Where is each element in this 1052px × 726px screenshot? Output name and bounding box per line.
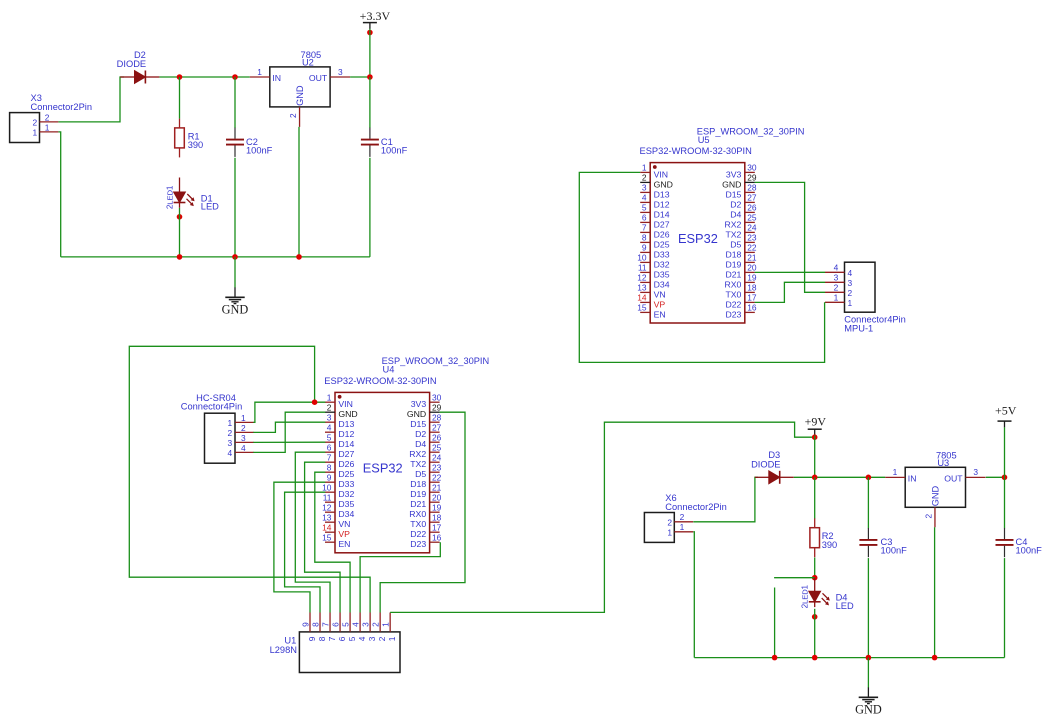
svg-text:5: 5 <box>642 203 647 213</box>
svg-text:5: 5 <box>340 622 350 627</box>
svg-text:3V3: 3V3 <box>726 169 742 179</box>
svg-text:DIODE: DIODE <box>117 59 146 69</box>
capacitor C1 <box>361 128 408 157</box>
svg-text:1: 1 <box>45 122 50 132</box>
svg-text:2: 2 <box>45 112 50 122</box>
U4 pin 7 D26 <box>325 452 355 469</box>
X3 pin 2 <box>40 121 59 123</box>
U5 pin 25 RX2 <box>724 213 756 230</box>
svg-text:DIODE: DIODE <box>751 459 780 469</box>
X6 pin 2 <box>674 521 693 523</box>
U4 pin 26 D4 <box>415 432 442 449</box>
diode D3 <box>751 450 794 484</box>
U4 pin 28 D15 <box>410 412 441 429</box>
U1 pin 4 <box>350 613 367 642</box>
svg-text:22: 22 <box>747 243 757 253</box>
svg-text:14: 14 <box>322 522 332 532</box>
svg-text:100nF: 100nF <box>381 145 408 155</box>
svg-text:24: 24 <box>747 223 757 233</box>
wire U5 D21(20) to MPU-1 pin 4 <box>755 271 825 273</box>
U4 pin 13 VN <box>322 512 350 529</box>
svg-text:3: 3 <box>327 412 332 422</box>
U5 pin 15 EN <box>637 303 665 320</box>
svg-text:2: 2 <box>228 428 233 438</box>
svg-text:8: 8 <box>642 233 647 243</box>
connector HC-SR04 (Connector4Pin) <box>181 393 243 463</box>
capacitor C3 <box>859 528 907 557</box>
svg-text:D22: D22 <box>410 529 426 539</box>
svg-text:1: 1 <box>801 584 810 589</box>
svg-text:10: 10 <box>637 253 647 263</box>
svg-text:4: 4 <box>834 263 839 273</box>
svg-text:D15: D15 <box>410 419 426 429</box>
svg-text:16: 16 <box>747 303 757 313</box>
LED D1 <box>166 178 220 212</box>
junction rail C2/GND <box>232 254 238 260</box>
U1 pin 8 <box>310 613 327 642</box>
junction D4 cathode <box>812 614 818 620</box>
svg-text:GND: GND <box>222 303 249 317</box>
svg-text:18: 18 <box>432 512 442 522</box>
regulator U2 (7805) <box>250 50 350 127</box>
svg-text:1: 1 <box>166 185 175 190</box>
wire U2 GND to rail <box>298 127 300 257</box>
HC-SR04 pin 2 <box>228 423 254 438</box>
connector U1 (L298N) <box>270 632 400 673</box>
U4 pin 14 VP <box>322 522 350 539</box>
svg-text:+9V: +9V <box>805 415 827 429</box>
svg-text:7: 7 <box>327 452 332 462</box>
svg-text:19: 19 <box>747 273 757 283</box>
svg-text:1: 1 <box>848 298 853 308</box>
svg-text:U1: U1 <box>284 636 296 646</box>
svg-text:30: 30 <box>747 163 757 173</box>
svg-text:2: 2 <box>924 513 934 518</box>
svg-text:6: 6 <box>327 442 332 452</box>
svg-text:3: 3 <box>338 67 343 77</box>
svg-text:D33: D33 <box>338 479 354 489</box>
connector X6 (Connector2Pin) <box>644 493 726 543</box>
U5 pin 1 VIN <box>640 163 668 180</box>
wire X6 pin1 down to GND rail <box>693 532 694 658</box>
svg-text:D18: D18 <box>725 249 741 259</box>
svg-text:EN: EN <box>654 309 666 319</box>
svg-text:TX2: TX2 <box>725 229 741 239</box>
svg-text:D12: D12 <box>654 199 670 209</box>
svg-text:D14: D14 <box>338 439 354 449</box>
U4 pin 10 D32 <box>322 482 354 499</box>
wire rail to ground symbol <box>234 257 236 288</box>
wire D1 to GND rail <box>179 208 181 257</box>
MPU-1 pin 4 <box>825 263 853 278</box>
svg-text:15: 15 <box>322 532 332 542</box>
svg-text:TX0: TX0 <box>410 519 426 529</box>
svg-text:D22: D22 <box>725 299 741 309</box>
svg-text:2: 2 <box>370 622 380 627</box>
svg-text:D12: D12 <box>338 429 354 439</box>
svg-text:8: 8 <box>310 622 320 627</box>
svg-text:ESP32: ESP32 <box>678 231 718 246</box>
U1 pin 3 <box>360 613 377 642</box>
U5 pin 4 D12 <box>640 193 670 210</box>
U4 pin 27 D2 <box>415 422 442 439</box>
U5 pin 10 D32 <box>637 253 669 270</box>
svg-text:22: 22 <box>432 472 442 482</box>
wire C1 column <box>369 77 371 128</box>
ESP32 module U5 (ESP_WROOM_32_30PIN) <box>640 126 805 323</box>
U2 pin 1 IN <box>250 76 270 78</box>
U4 pin 25 RX2 <box>409 442 441 459</box>
svg-text:VP: VP <box>654 299 666 309</box>
U4 pin 16 D23 <box>410 532 441 549</box>
wire U4 D33(9) to U1 pin9 <box>274 482 325 612</box>
wire U5 VIN loop to MPU-1 pin 1 <box>579 172 824 362</box>
U4 pin 8 D25 <box>325 462 355 479</box>
svg-text:3: 3 <box>834 273 839 283</box>
svg-text:1: 1 <box>380 622 390 627</box>
wire U3 OUT to +5V node <box>986 476 1005 478</box>
svg-text:7: 7 <box>642 223 647 233</box>
svg-text:D19: D19 <box>410 489 426 499</box>
svg-text:27: 27 <box>747 193 757 203</box>
svg-text:L298N: L298N <box>270 645 297 655</box>
svg-text:U4: U4 <box>383 365 395 375</box>
U5 pin 30 3V3 <box>726 163 757 180</box>
wire U4 D27(6) to U1 pin7 <box>295 452 330 612</box>
svg-text:1: 1 <box>327 392 332 402</box>
U1 pin 6 <box>330 613 347 642</box>
U5 pin 27 D2 <box>730 193 757 210</box>
U5 pin 2 GND <box>640 173 673 190</box>
junction U4 VIN <box>312 399 318 405</box>
svg-text:23: 23 <box>747 233 757 243</box>
svg-text:ESP32-WROOM-32-30PIN: ESP32-WROOM-32-30PIN <box>640 146 752 156</box>
svg-text:4: 4 <box>848 268 853 278</box>
U3 pin 3 OUT <box>966 476 986 478</box>
svg-text:LED: LED <box>201 202 219 212</box>
wire C1 to GND rail corner <box>369 158 371 257</box>
svg-text:30: 30 <box>432 392 442 402</box>
regulator U3 (7805) <box>885 450 985 527</box>
svg-text:TX2: TX2 <box>410 459 426 469</box>
svg-text:10: 10 <box>322 482 332 492</box>
U5 pin 6 D27 <box>640 213 670 230</box>
svg-text:ESP_WROOM_32_30PIN: ESP_WROOM_32_30PIN <box>697 126 805 136</box>
junction rail U3 GND <box>932 655 938 661</box>
junction R2/D4 node <box>812 575 818 581</box>
svg-text:U5: U5 <box>698 135 710 145</box>
svg-text:RX2: RX2 <box>724 219 741 229</box>
wire U3 GND to rail <box>934 527 936 657</box>
X3 pin 1 <box>40 131 59 133</box>
U2 pin 3 OUT <box>330 76 350 78</box>
U4 pin 4 D12 <box>325 422 355 439</box>
svg-text:GND: GND <box>931 486 941 507</box>
MPU-1 pin 3 <box>825 273 853 288</box>
junction rail U2 GND <box>296 254 302 260</box>
U4 pin 12 D34 <box>322 502 354 519</box>
svg-text:2: 2 <box>848 288 853 298</box>
svg-text:7: 7 <box>327 636 337 641</box>
junction rail C3/GND <box>866 655 872 661</box>
U5 pin 16 D23 <box>725 303 756 320</box>
svg-text:Connector4Pin: Connector4Pin <box>181 401 243 411</box>
svg-text:12: 12 <box>322 502 332 512</box>
HC-SR04 pin 4 <box>228 443 254 458</box>
svg-text:D19: D19 <box>725 259 741 269</box>
power +3.3V <box>360 9 391 29</box>
ground GND symbol <box>222 287 249 316</box>
svg-text:5: 5 <box>347 636 357 641</box>
junction rail dangling wire <box>772 655 778 661</box>
svg-text:13: 13 <box>322 512 332 522</box>
wire HC-SR04 pin1 to VIN node <box>253 402 325 422</box>
svg-text:D26: D26 <box>338 459 354 469</box>
svg-text:D35: D35 <box>338 499 354 509</box>
svg-text:29: 29 <box>432 402 442 412</box>
svg-text:U2: U2 <box>302 57 314 67</box>
U5 pin 11 D35 <box>638 263 670 280</box>
svg-text:D35: D35 <box>654 269 670 279</box>
wire U1 pin1 to +9V node <box>390 422 815 612</box>
U5 pin 8 D25 <box>640 233 670 250</box>
svg-text:28: 28 <box>747 183 757 193</box>
wire down to R2 <box>814 477 816 518</box>
svg-text:IN: IN <box>908 474 917 484</box>
U4 pin 17 D22 <box>410 522 441 539</box>
svg-text:21: 21 <box>747 253 757 263</box>
svg-text:6: 6 <box>642 213 647 223</box>
wire dangling to GND rail <box>774 588 776 658</box>
ground GND symbol <box>855 687 882 716</box>
svg-text:2: 2 <box>241 423 246 433</box>
junction +9V node <box>812 434 818 440</box>
svg-text:7: 7 <box>320 622 330 627</box>
svg-text:ESP32-WROOM-32-30PIN: ESP32-WROOM-32-30PIN <box>324 376 436 386</box>
svg-text:Connector2Pin: Connector2Pin <box>31 102 93 112</box>
U5 pin 17 D22 <box>725 293 756 310</box>
svg-text:VN: VN <box>338 519 350 529</box>
svg-text:4: 4 <box>228 448 233 458</box>
svg-text:1: 1 <box>33 128 38 138</box>
svg-text:20: 20 <box>747 263 757 273</box>
svg-text:D13: D13 <box>338 419 354 429</box>
svg-text:1: 1 <box>257 67 262 77</box>
junction U2 OUT / +3.3V / C1 <box>367 74 373 80</box>
U4 pin 6 D27 <box>325 442 355 459</box>
U1 pin 1 <box>380 613 397 642</box>
wire C3 column <box>867 477 869 528</box>
svg-text:TX0: TX0 <box>725 289 741 299</box>
svg-text:VIN: VIN <box>654 169 668 179</box>
svg-text:ESP32: ESP32 <box>363 461 403 476</box>
wire U4 D32(10) to U1 pin8 <box>285 492 326 612</box>
U5 pin 23 D5 <box>730 233 757 250</box>
svg-text:390: 390 <box>822 540 838 550</box>
U5 pin 26 D4 <box>730 203 757 220</box>
svg-text:D33: D33 <box>654 249 670 259</box>
wire U4 GND(2) to HC-SR04 pin4 <box>253 412 325 452</box>
svg-text:2: 2 <box>801 603 810 608</box>
svg-text:3: 3 <box>360 622 370 627</box>
MPU-1 pin 2 <box>825 283 853 298</box>
svg-text:6: 6 <box>330 622 340 627</box>
svg-text:390: 390 <box>188 140 204 150</box>
svg-text:9: 9 <box>327 472 332 482</box>
svg-text:1: 1 <box>241 413 246 423</box>
wire X3 pin1 down to GND rail <box>58 132 60 257</box>
U4 pin 23 D5 <box>415 462 442 479</box>
wire 5V loop: U4 VIN / HC-SR04 pin1 / U1 pin3 <box>129 346 370 612</box>
svg-text:4: 4 <box>327 422 332 432</box>
connector MPU-1 (Connector4Pin) <box>844 262 906 333</box>
capacitor C2 <box>226 128 273 157</box>
svg-text:GND: GND <box>855 703 882 717</box>
svg-text:D23: D23 <box>410 539 426 549</box>
U4 pin 20 D21 <box>410 492 441 509</box>
U5 pin 22 D18 <box>725 243 756 260</box>
wire C2 column <box>234 77 236 128</box>
svg-text:ESP_WROOM_32_30PIN: ESP_WROOM_32_30PIN <box>382 356 490 366</box>
svg-text:16: 16 <box>432 532 442 542</box>
wire C3 to GND rail <box>867 558 869 658</box>
U4 pin 2 GND <box>325 402 358 419</box>
wire D3 cathode to U3 IN <box>794 476 885 478</box>
svg-text:RX2: RX2 <box>409 449 426 459</box>
svg-text:20: 20 <box>432 492 442 502</box>
U5 pin 20 D21 <box>725 263 756 280</box>
svg-text:23: 23 <box>432 462 442 472</box>
junction D1 cathode <box>177 214 183 220</box>
svg-text:3: 3 <box>642 183 647 193</box>
svg-text:1: 1 <box>228 418 233 428</box>
U1 pin 9 <box>300 613 317 642</box>
GND rail (bottom-right) <box>694 657 1004 659</box>
svg-text:D13: D13 <box>654 189 670 199</box>
X6 pin 1 <box>674 531 693 533</box>
svg-text:GND: GND <box>338 409 357 419</box>
svg-text:D2: D2 <box>415 429 426 439</box>
resistor R1 <box>175 119 204 158</box>
U5 pin 9 D33 <box>640 243 670 260</box>
svg-text:29: 29 <box>747 173 757 183</box>
wire +3.3V down to OUT node <box>369 29 371 77</box>
LED D4 <box>801 578 854 611</box>
wire R2 bottom to LED node <box>814 558 816 578</box>
U4 pin 18 TX0 <box>410 512 441 529</box>
U5 pin 7 D26 <box>640 223 670 240</box>
svg-text:21: 21 <box>432 482 442 492</box>
svg-text:11: 11 <box>638 263 647 273</box>
svg-text:OUT: OUT <box>944 474 963 484</box>
U4 pin 30 3V3 <box>411 392 442 409</box>
svg-text:D4: D4 <box>415 439 426 449</box>
U3 pin 1 IN <box>885 476 905 478</box>
U5 pin 14 VP <box>637 293 665 310</box>
svg-text:GND: GND <box>654 179 673 189</box>
wire U2 OUT to +3.3V node <box>350 76 370 78</box>
svg-text:D34: D34 <box>338 509 354 519</box>
svg-text:26: 26 <box>432 432 442 442</box>
U4 pin 21 D19 <box>410 482 441 499</box>
svg-text:+5V: +5V <box>995 403 1017 417</box>
wire down to R1 <box>179 77 181 119</box>
wire HC-SR04 pin3 to U4 D14(5) <box>253 441 325 443</box>
HC-SR04 pin 1 <box>228 413 254 428</box>
svg-text:D23: D23 <box>725 309 741 319</box>
svg-text:11: 11 <box>323 492 332 502</box>
svg-text:GND: GND <box>295 85 305 106</box>
svg-text:9: 9 <box>300 622 310 627</box>
svg-text:3V3: 3V3 <box>411 399 427 409</box>
svg-text:D15: D15 <box>725 189 741 199</box>
svg-text:4: 4 <box>642 193 647 203</box>
connector X3 (Connector2Pin) <box>10 93 92 143</box>
svg-text:U3: U3 <box>937 458 949 468</box>
svg-text:D21: D21 <box>410 499 426 509</box>
wire X3 pin2 to D2 anode <box>58 77 124 122</box>
wire X6 pin2 to D3 anode <box>693 477 758 522</box>
svg-text:EN: EN <box>338 539 350 549</box>
wire D4 to GND rail <box>814 609 816 658</box>
wire C2 to GND rail <box>234 158 236 257</box>
svg-text:1: 1 <box>834 293 839 303</box>
svg-text:25: 25 <box>747 213 757 223</box>
U4 pin 22 D18 <box>410 472 441 489</box>
U4 pin 9 D33 <box>325 472 355 489</box>
U5 pin 18 TX0 <box>725 283 756 300</box>
wire U5 D22(17) to MPU-1 pin 3 <box>755 282 825 302</box>
U4 pin 11 D35 <box>323 492 355 509</box>
svg-text:VIN: VIN <box>338 399 352 409</box>
svg-text:D27: D27 <box>338 449 354 459</box>
U1 pin 5 <box>340 613 357 642</box>
svg-text:3: 3 <box>848 278 853 288</box>
wire C4 column <box>1004 477 1006 528</box>
svg-text:+3.3V: +3.3V <box>360 9 391 23</box>
junction below +3.3V <box>367 30 373 36</box>
U1 pin 2 <box>370 613 387 642</box>
svg-text:D5: D5 <box>730 239 741 249</box>
svg-text:15: 15 <box>637 303 647 313</box>
svg-text:1: 1 <box>893 467 898 477</box>
U5 pin 21 D19 <box>725 253 756 270</box>
U1 pin 7 <box>320 613 337 642</box>
svg-text:1: 1 <box>642 163 647 173</box>
wire stub left of R2/D4 node <box>774 577 815 579</box>
svg-text:2: 2 <box>377 636 387 641</box>
diode D2 <box>117 50 160 84</box>
svg-text:28: 28 <box>432 412 442 422</box>
power +9V <box>805 415 827 436</box>
svg-text:8: 8 <box>327 462 332 472</box>
svg-text:D14: D14 <box>654 209 670 219</box>
wire U4 D26(7) to U1 pin6 <box>305 462 340 612</box>
U2 pin 2 GND <box>299 107 301 127</box>
U4 pin 1 VIN <box>325 392 353 409</box>
junction rail D4 <box>812 655 818 661</box>
U4 pin 19 RX0 <box>409 502 441 519</box>
svg-text:2: 2 <box>288 113 298 118</box>
svg-text:D5: D5 <box>415 469 426 479</box>
svg-text:3: 3 <box>367 636 377 641</box>
svg-text:13: 13 <box>637 283 647 293</box>
svg-text:17: 17 <box>747 293 757 303</box>
svg-text:3: 3 <box>228 438 233 448</box>
svg-text:2: 2 <box>642 173 647 183</box>
HC-SR04 pin 3 <box>228 433 254 448</box>
wire rail to ground symbol <box>867 658 869 688</box>
